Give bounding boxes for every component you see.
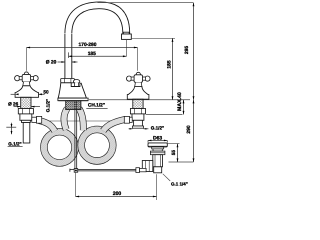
- dim 200 bottom: [76, 173, 157, 200]
- right valve threaded shank: [133, 99, 143, 108]
- svg-text:Ø 26: Ø 26: [8, 101, 19, 106]
- right valve side fitting: [124, 116, 132, 123]
- aerator centerline: [126, 39, 128, 56]
- dim 185 vertical right: [166, 38, 173, 100]
- svg-text:200: 200: [113, 191, 122, 197]
- left valve side fitting: [32, 116, 42, 123]
- drain lever port: [142, 161, 153, 172]
- svg-text:G.1/2": G.1/2": [151, 126, 164, 131]
- dim 290 vertical right: [186, 100, 195, 162]
- svg-text:290: 290: [186, 125, 192, 133]
- pop-up lift knob: [73, 80, 79, 87]
- left valve threaded shank: [21, 97, 31, 108]
- label CH.1/2": [86, 103, 107, 109]
- wire: hose axis line: [38, 120, 127, 122]
- left valve body: [20, 114, 32, 120]
- aerator outlet: [122, 32, 132, 39]
- svg-text:295: 295: [184, 46, 190, 54]
- drain plug stack: [152, 147, 164, 151]
- pop-up rod vertical: [75, 101, 77, 169]
- deck counter bottom line: [146, 114, 183, 116]
- right tail thread dim G.1/2": [129, 126, 165, 131]
- spout base hex collar: [61, 79, 75, 83]
- deck counter top line: [89, 99, 190, 101]
- drain body: [153, 155, 163, 167]
- svg-text:185: 185: [88, 51, 96, 57]
- svg-text:CH.1/2": CH.1/2": [88, 103, 105, 109]
- svg-text:Ø 20: Ø 20: [46, 60, 57, 66]
- spout bell dome: [58, 83, 86, 98]
- dim MAX.40 deck thickness: [177, 92, 185, 114]
- drain tailpiece: [154, 167, 162, 173]
- svg-text:170-280: 170-280: [79, 42, 97, 48]
- drain rod ball joint: [136, 168, 146, 173]
- svg-text:185: 185: [166, 60, 172, 68]
- extension line spout top to 295: [98, 2, 194, 4]
- svg-text:MAX.40: MAX.40: [177, 92, 183, 111]
- left valve mounting nut: [18, 109, 33, 114]
- svg-text:55: 55: [171, 150, 176, 156]
- right handle centerline: [137, 48, 139, 71]
- label G.1/2" bottom left underlined: [8, 142, 23, 147]
- spout riser pipe: [65, 34, 72, 79]
- left cross handle: [15, 72, 39, 82]
- pop-up rod clamp junction: [74, 169, 78, 173]
- spout base plinth: [58, 98, 88, 101]
- extension line drain flange to 55: [168, 143, 180, 145]
- left handle neck and bell: [15, 82, 38, 97]
- left handle centerline: [26, 48, 28, 71]
- drain pop-up waste flange: [148, 143, 167, 147]
- spout gooseneck arc: [65, 2, 130, 34]
- right valve mounting nut: [130, 109, 145, 114]
- svg-text:G.1/2": G.1/2": [8, 142, 21, 147]
- right cross handle: [127, 72, 151, 82]
- flexible hose right loop: [81, 129, 113, 161]
- basin bottom line: [169, 161, 194, 163]
- dim Ø20 spout pipe: [46, 60, 78, 66]
- right valve tail: [132, 120, 143, 128]
- right handle neck and bell: [127, 82, 149, 99]
- pop-up rod horizontal to drain: [70, 169, 136, 172]
- svg-text:G.1/2": G.1/2": [45, 99, 50, 112]
- drain seat disc: [150, 151, 165, 155]
- left valve tail: [22, 120, 31, 143]
- hose from spout shank to left loop: [64, 109, 67, 130]
- hose from right valve to right loop: [103, 119, 125, 131]
- hose from left valve to left loop: [39, 121, 55, 132]
- dim 50 left bell: [11, 90, 49, 96]
- left tail thread dim: [6, 123, 16, 134]
- right valve body: [132, 114, 144, 120]
- extension line aerator to 185v: [131, 37, 175, 39]
- svg-text:G.1 1/4": G.1 1/4": [171, 181, 188, 186]
- label G.1 1/4" with leader: [163, 174, 188, 187]
- dim 55 drain: [171, 144, 179, 162]
- flexible hose left loop: [44, 132, 75, 163]
- label D63 and dim: [148, 136, 167, 143]
- dim 170-280 top: [27, 42, 138, 48]
- dim Ø26 left shank: [8, 101, 40, 107]
- hose from spout shank to right loop: [79, 109, 83, 131]
- spout threaded shank: [66, 101, 81, 110]
- dim 185 horizontal: [68, 51, 126, 58]
- dim 295 vertical right: [184, 3, 194, 100]
- svg-text:50: 50: [43, 90, 49, 95]
